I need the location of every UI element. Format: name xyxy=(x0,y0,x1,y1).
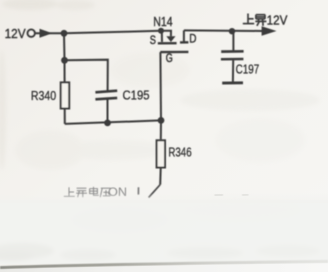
strip below page edge xyxy=(0,263,328,272)
resistor R340 lead top xyxy=(64,60,66,82)
end bar xyxy=(222,81,243,84)
svg-text:N14: N14 xyxy=(153,14,172,29)
gate bar xyxy=(160,51,188,54)
capacitor C195 xyxy=(95,91,117,93)
resistor R346 xyxy=(157,140,165,167)
junction node D2 xyxy=(158,117,165,124)
resistor R346 lead top xyxy=(160,120,162,139)
wire drain to output xyxy=(184,29,263,32)
svg-text:D: D xyxy=(189,33,196,45)
svg-text:12V: 12V xyxy=(5,26,26,41)
capacitor C197 lead top xyxy=(232,31,234,50)
svg-text:C195: C195 xyxy=(123,88,150,103)
net label 上屏电压ON xyxy=(64,187,111,198)
wire gate down to node D2 xyxy=(159,52,162,120)
junction node C xyxy=(104,120,111,127)
arrow on 12V wire xyxy=(40,29,53,38)
svg-text:S: S xyxy=(150,35,156,47)
wire bottom rail xyxy=(65,120,161,124)
body diode arrow xyxy=(166,36,175,42)
resistor R340 lead bottom xyxy=(64,110,66,124)
junction node S xyxy=(158,28,164,34)
svg-text:G: G xyxy=(166,53,173,65)
wire node A to MOSFET source xyxy=(64,31,161,34)
junction node B xyxy=(61,57,68,64)
source electrode xyxy=(161,32,163,42)
channel bar xyxy=(158,42,177,44)
svg-text:C197: C197 xyxy=(236,62,260,77)
resistor R340 xyxy=(61,82,69,108)
svg-text:R340: R340 xyxy=(31,88,56,103)
svg-text:R346: R346 xyxy=(168,144,191,159)
arrow output xyxy=(262,26,277,36)
wire 12V terminal to arrow xyxy=(35,32,64,34)
resistor R346 lead bottom xyxy=(159,169,162,185)
switch contact tick xyxy=(137,187,139,194)
body diode stem xyxy=(161,31,171,37)
switch lever xyxy=(149,185,161,198)
wire node B to C195 xyxy=(65,60,108,92)
junction node A xyxy=(61,30,68,37)
faint residue dashes xyxy=(215,194,224,196)
junction node E xyxy=(229,28,235,34)
smudge line at page bottom xyxy=(0,261,328,267)
fade at page bottom edge xyxy=(0,193,328,203)
node label 上屏12V xyxy=(243,14,267,26)
12V input terminal xyxy=(28,30,35,37)
wire node A down xyxy=(63,33,66,60)
bottom band xyxy=(0,200,328,264)
capacitor C197 xyxy=(221,50,243,53)
svg-text:12V: 12V xyxy=(267,12,288,27)
drain bar xyxy=(180,41,188,44)
drain electrode xyxy=(183,30,185,42)
